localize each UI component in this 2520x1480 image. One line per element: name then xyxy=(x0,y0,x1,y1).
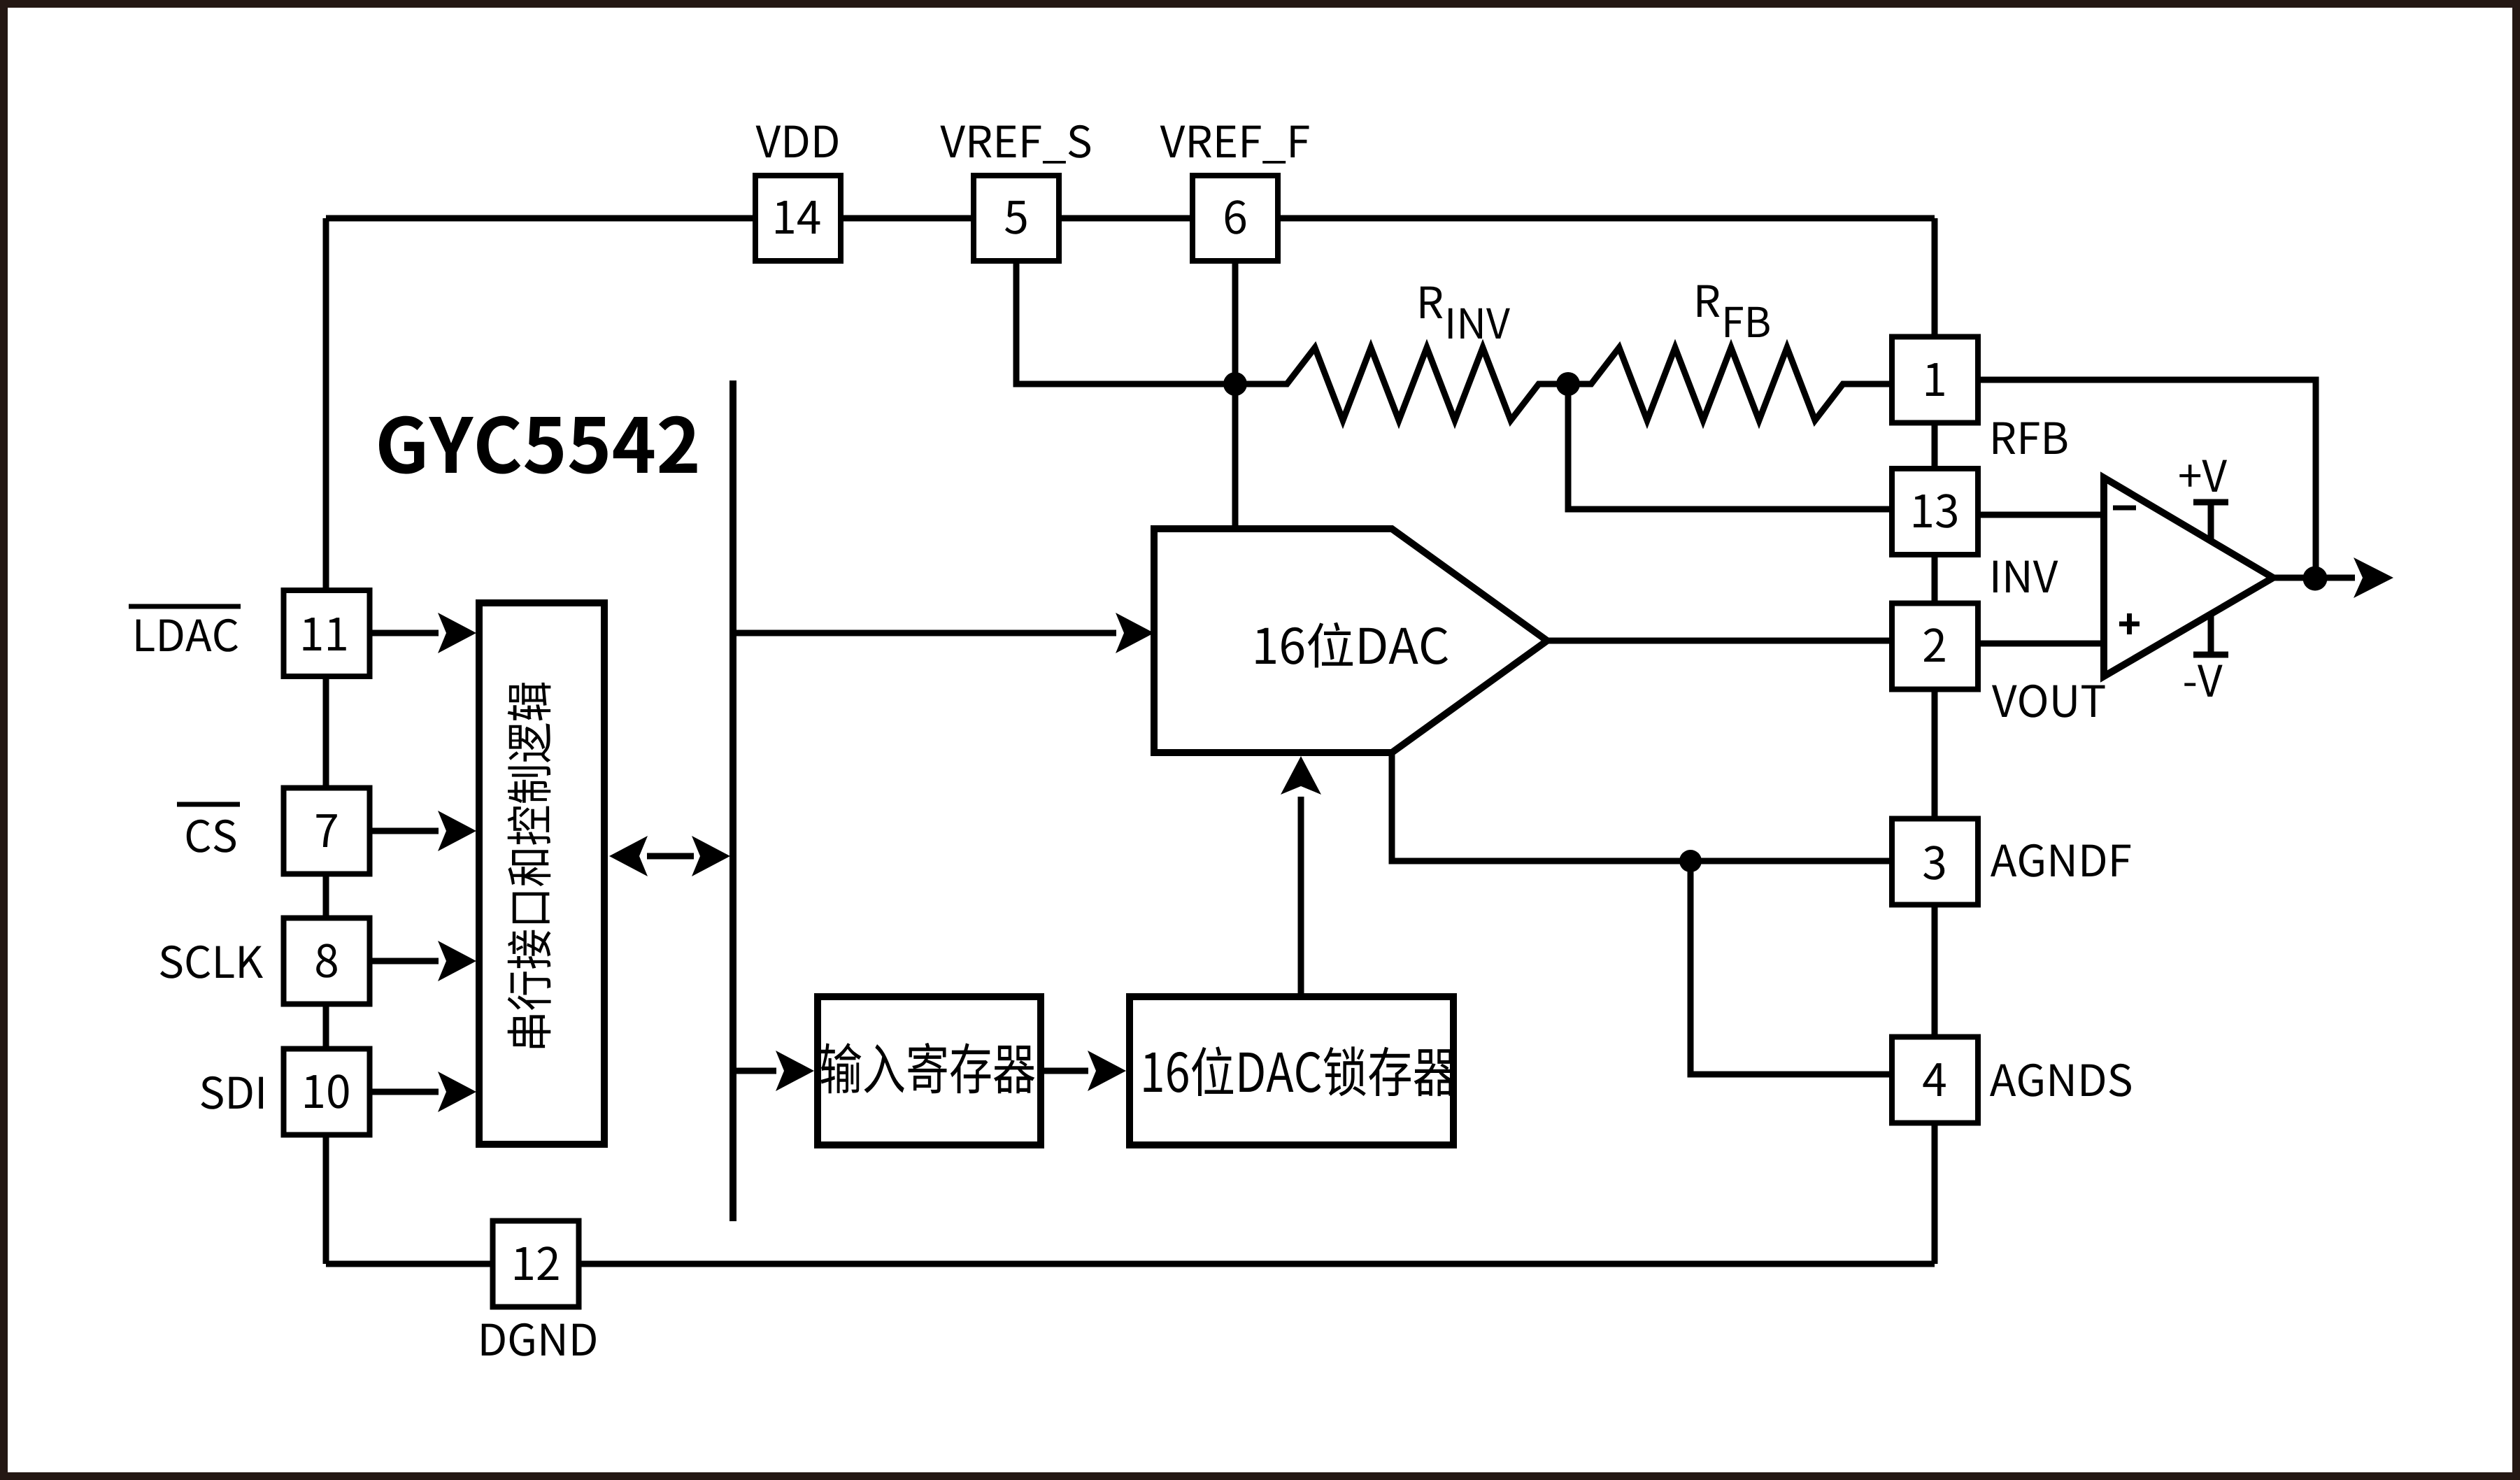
wire DAC output to pin2 xyxy=(1547,638,1889,644)
pin 1 box xyxy=(1892,337,1978,423)
pin 2 box xyxy=(1892,604,1978,690)
label LDAC xyxy=(136,619,238,652)
resistor label FB subscript xyxy=(1725,307,1770,337)
label VOUT pin2 xyxy=(1992,685,2105,718)
wire serial block to bus double arrow stem xyxy=(647,853,694,860)
wire left chip vertical xyxy=(323,218,329,1264)
text serial interface and control logic (vertical) xyxy=(508,683,551,1048)
op-amp +V supply bar xyxy=(2193,499,2228,506)
label RFB pin1 xyxy=(1993,422,2067,454)
pin number 1 xyxy=(1926,363,1944,396)
wire pin1 feedback to op-amp output xyxy=(1979,380,2316,578)
pin number 5 xyxy=(1005,201,1026,234)
wire pin13 to op-amp inverting input xyxy=(1979,512,2104,518)
serial interface and control logic block xyxy=(479,603,604,1144)
label -V xyxy=(2184,665,2222,697)
wire node D to pin4 AGNDS xyxy=(1690,861,1889,1074)
resistor label R of RFB xyxy=(1697,285,1719,317)
input register block xyxy=(818,997,1041,1145)
op-amp +V supply stub xyxy=(2208,502,2214,542)
wire pin11 LDAC to serial block xyxy=(372,630,439,636)
label INV pin13 xyxy=(1993,561,2058,592)
pin number 7 xyxy=(316,814,336,847)
pin 11 box xyxy=(284,590,370,676)
16-bit DAC latch block xyxy=(1130,997,1453,1145)
resistor RINV xyxy=(1235,348,1568,420)
pin 8 box xyxy=(284,918,370,1004)
wire pin7 CS to serial block xyxy=(372,828,439,834)
text input register xyxy=(821,1043,1035,1093)
overline LDAC xyxy=(129,604,241,609)
op-amp U1 triangle xyxy=(2104,478,2273,676)
pin 12 box xyxy=(493,1221,579,1307)
op-amp -V supply stub xyxy=(2208,616,2214,655)
pin number 4 xyxy=(1923,1063,1946,1096)
label AGNDF pin3 xyxy=(1991,844,2130,877)
bus vertical line xyxy=(729,380,736,1221)
op-amp minus sign xyxy=(2113,506,2136,511)
arrowhead SCLK xyxy=(438,941,476,981)
pin number 2 xyxy=(1924,628,1945,662)
wire pin5 to node A xyxy=(1016,264,1235,384)
label +V xyxy=(2179,460,2227,492)
pin number 11 xyxy=(304,618,346,650)
pin number 13 xyxy=(1914,494,1957,528)
pin 5 box xyxy=(974,176,1059,261)
wire input register to DAC latch xyxy=(1044,1068,1088,1074)
pin 6 box xyxy=(1193,176,1278,261)
label SDI xyxy=(201,1076,263,1109)
label CS xyxy=(187,820,236,853)
wire right pin column vertical xyxy=(1932,218,1938,1264)
op-amp -V supply bar xyxy=(2193,652,2228,658)
wire pin8 SCLK to serial block xyxy=(372,958,439,965)
wire DAC latch up to DAC xyxy=(1298,797,1304,997)
text 16-bit DAC latch xyxy=(1144,1046,1457,1096)
overline CS xyxy=(177,802,240,807)
pin number 3 xyxy=(1923,846,1944,880)
pin number 12 xyxy=(515,1246,558,1280)
pin number 14 xyxy=(776,201,820,234)
resistor label R of RINV xyxy=(1421,287,1442,318)
resistor RFB xyxy=(1568,348,1889,420)
wire pin10 SDI to serial block xyxy=(372,1089,439,1095)
pin number 6 xyxy=(1225,200,1246,234)
arrowhead CS xyxy=(438,811,476,851)
arrowhead latch to DAC xyxy=(1281,756,1321,795)
wire node B to pin13 INV xyxy=(1568,384,1889,509)
label AGNDS pin4 xyxy=(1990,1064,2131,1097)
arrowhead into DAC latch xyxy=(1088,1051,1126,1091)
wire top bus VDD/VREF rail xyxy=(326,215,1935,222)
label SCLK xyxy=(160,946,263,979)
op-amp plus sign xyxy=(2119,613,2140,634)
node A junction dot xyxy=(1223,372,1247,396)
text 16-bit DAC xyxy=(1256,622,1448,668)
wire pin2 to op-amp noninverting input xyxy=(1979,641,2104,647)
pin number 10 xyxy=(305,1074,348,1109)
arrowhead serial-bus right xyxy=(692,836,730,876)
node B junction dot xyxy=(1556,372,1580,396)
pin number 8 xyxy=(316,944,337,977)
label DGND xyxy=(482,1323,596,1356)
wire pin6 down to DAC xyxy=(1232,264,1239,529)
pin 3 box xyxy=(1892,819,1978,905)
pin 4 box xyxy=(1892,1037,1978,1123)
chip name GYC5542 xyxy=(379,416,697,474)
16-bit DAC pentagon xyxy=(1154,529,1547,753)
arrowhead output xyxy=(2354,557,2393,598)
arrowhead into input register xyxy=(776,1051,814,1091)
arrowhead LDAC xyxy=(438,613,476,653)
pin 10 box xyxy=(284,1049,370,1135)
arrowhead SDI xyxy=(438,1072,476,1112)
wire op-amp output xyxy=(2273,575,2355,581)
label VREF_F xyxy=(1160,126,1309,164)
wire bottom DGND rail xyxy=(326,1261,1935,1267)
arrowhead serial-bus left xyxy=(609,836,648,876)
node C output junction dot xyxy=(2303,567,2328,591)
pin 14 box xyxy=(755,176,841,261)
wire bus to DAC input xyxy=(733,630,1116,636)
pin 7 box xyxy=(284,788,370,874)
wire bus to input register xyxy=(733,1068,776,1074)
wire DAC AGND leg to pin3 xyxy=(1392,753,1889,861)
label VDD xyxy=(756,126,838,157)
pin 13 box xyxy=(1892,469,1978,555)
label VREF_S xyxy=(940,125,1090,164)
resistor label INV subscript xyxy=(1448,308,1510,339)
node D junction dot xyxy=(1679,850,1702,872)
arrow into DAC xyxy=(1116,613,1154,653)
